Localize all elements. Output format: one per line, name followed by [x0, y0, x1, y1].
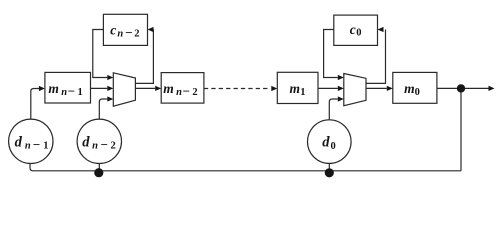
- svg-text:mn−1: mn−1: [48, 81, 82, 99]
- svg-text:dn−1: dn−1: [15, 134, 49, 152]
- svg-text:m1: m1: [290, 81, 306, 98]
- svg-text:mn−2: mn−2: [163, 81, 197, 99]
- svg-text:d0: d0: [322, 135, 335, 152]
- svg-text:dn−2: dn−2: [82, 134, 116, 152]
- svg-text:c0: c0: [350, 22, 362, 38]
- svg-text:cn−2: cn−2: [110, 22, 139, 40]
- svg-text:m0: m0: [404, 81, 420, 98]
